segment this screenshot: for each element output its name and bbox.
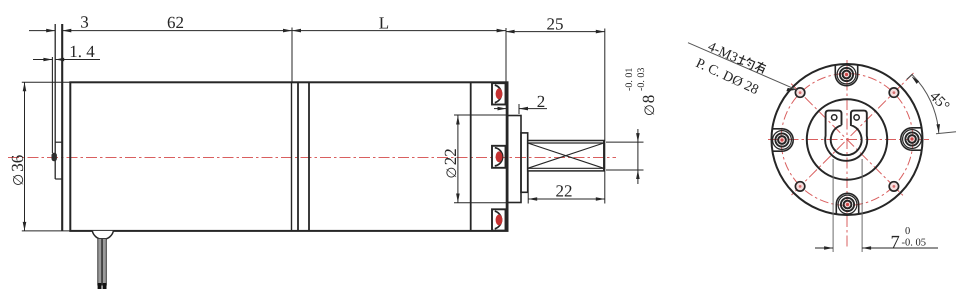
glyph jun (737, 53, 756, 69)
screw boss south (836, 193, 858, 214)
shaft inner top line (528, 142, 604, 144)
middle bearing red seal (496, 151, 503, 162)
rear cover plate line A (51, 57, 53, 153)
shaft collar (521, 133, 528, 192)
dimension dia22 line (457, 116, 459, 203)
middle bearing D-arc (495, 148, 503, 166)
bottom bearing red seal (496, 215, 503, 226)
dimension 22 extension left (527, 172, 529, 204)
rear bracket top line (55, 141, 62, 143)
flange outer circle (772, 64, 923, 215)
wire exit bump (92, 231, 113, 239)
svg-text:-0. 01: -0. 01 (624, 68, 635, 91)
svg-text:2: 2 (537, 92, 546, 111)
shaft inner bottom line (528, 167, 604, 169)
dimension dia22 text (441, 148, 460, 178)
flange pilot circle (807, 99, 887, 179)
svg-text:-0. 03: -0. 03 (636, 68, 647, 91)
end view diagonal centerline NW-SE (791, 84, 903, 196)
svg-text:∅8: ∅8 (639, 95, 658, 116)
svg-text:25: 25 (547, 15, 564, 34)
side view main centerline (8, 157, 616, 159)
dimension dia36 extension top (22, 81, 71, 83)
wire tip left (98, 283, 102, 289)
motor-gearbox joint line 3 (308, 82, 310, 231)
lead wire left (98, 239, 102, 286)
bottom bearing pocket (492, 209, 506, 230)
shaft retaining clip outline (825, 111, 867, 161)
45 degree arc (912, 75, 939, 134)
top bearing red seal (496, 88, 503, 99)
shaft flat extension right (861, 159, 863, 252)
M3 hole SW (795, 182, 804, 191)
dimension 3 line (29, 30, 55, 32)
rear cover plate line C (61, 24, 63, 231)
dimension 7 line left (815, 247, 833, 249)
wire tip right (103, 283, 107, 289)
motor body outline (70, 82, 507, 231)
rear bracket bottom line (55, 178, 62, 180)
end view horizontal centerline (768, 139, 929, 141)
clip lug hole right (854, 115, 859, 120)
dimension 7 line right (862, 247, 938, 249)
M3 hole SE (889, 182, 898, 191)
gearbox internal front line (470, 82, 472, 231)
dimension 2 extension line (518, 104, 520, 114)
bottom bearing D-arc (495, 211, 502, 229)
dimension dia8 line (637, 129, 639, 184)
shaft flat extension left (832, 159, 834, 252)
leader line for M3 label (688, 43, 797, 90)
extension line x506 (505, 28, 507, 82)
svg-text:3: 3 (80, 13, 89, 32)
screw boss east (901, 128, 922, 150)
label 4-M3 text (705, 39, 766, 78)
svg-text:22: 22 (556, 182, 573, 201)
glyph bu (754, 60, 767, 74)
M3 hole NE (889, 88, 898, 97)
rear shaft stub (52, 153, 57, 161)
dimension dia36 extension bottom (22, 230, 71, 232)
45 degree tick (936, 132, 956, 134)
gearbox front face thick line (506, 82, 509, 231)
motor-gearbox joint line 2 (297, 82, 299, 231)
svg-text:45°: 45° (926, 89, 952, 115)
extension line shaft end (604, 29, 606, 204)
dimension dia22 extension top (454, 114, 507, 116)
output boss (508, 116, 522, 203)
bolt circle PCD28 (781, 74, 913, 206)
screw boss west (772, 129, 793, 151)
svg-text:62: 62 (167, 13, 184, 32)
svg-text:∅22: ∅22 (441, 148, 460, 178)
dimension dia8 extension bottom (606, 169, 644, 171)
dimension dia36 text (8, 155, 27, 186)
dimension dia36 line (24, 82, 26, 231)
dimension dia8 extension top (606, 141, 644, 143)
label PCD28 text (693, 56, 760, 98)
dimension 1.4 line (33, 59, 52, 61)
dimension dia8 text with tolerance (624, 68, 658, 116)
output shaft outline (528, 141, 604, 171)
shaft cross diagonal 1 (528, 143, 604, 168)
extension line x292 (291, 28, 293, 83)
svg-text:1. 4: 1. 4 (69, 42, 95, 61)
dimension 2 line right (519, 108, 547, 110)
middle bearing pocket (492, 146, 506, 168)
dimension 2 line left (494, 108, 507, 110)
screw boss north (835, 65, 857, 86)
dimension dia22 extension bottom (454, 202, 507, 204)
shaft cross diagonal 2 (528, 143, 604, 168)
svg-text:7: 7 (891, 233, 900, 253)
clip lug hole left (832, 115, 837, 120)
top bearing D-arc (495, 85, 502, 103)
rear cover plate line B (54, 24, 56, 179)
end view diagonal centerline NE-SW (791, 73, 913, 195)
motor-gearbox joint line 1 (291, 82, 293, 231)
svg-text:-0. 05: -0. 05 (902, 238, 927, 249)
45 degree text (926, 89, 952, 115)
dimension 22 line (528, 198, 605, 200)
end view vertical centerline (846, 60, 848, 247)
svg-text:L: L (379, 14, 389, 33)
M3 hole NW (795, 88, 804, 97)
dimension 62 line (62, 30, 292, 32)
svg-text:∅36: ∅36 (8, 155, 27, 186)
lead wire right (102, 239, 106, 286)
svg-text:0: 0 (905, 226, 910, 237)
top bearing pocket (492, 83, 506, 104)
dimension L line (292, 30, 506, 32)
dimension 25 line (506, 31, 605, 33)
